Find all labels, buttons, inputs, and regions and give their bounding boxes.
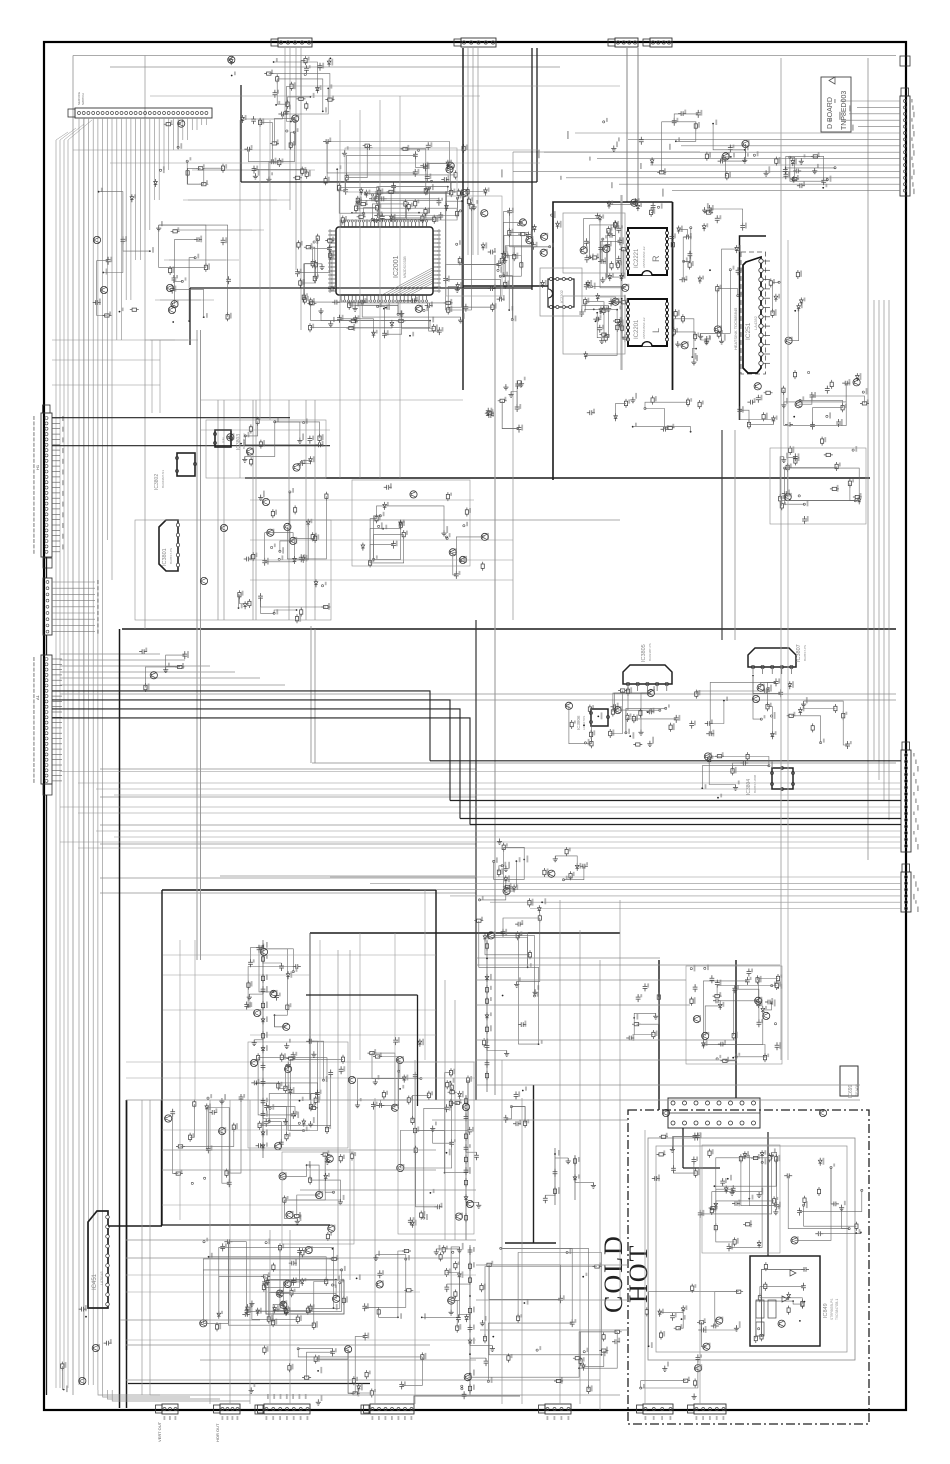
wire both3 — [126, 1344, 430, 1346]
wire botv4 — [599, 960, 601, 1410]
wire h4 — [100, 877, 476, 879]
bold pair v532 — [531, 48, 533, 290]
left conn spine3 — [46, 795, 48, 1395]
sub-box hot mid — [702, 1145, 780, 1253]
transistor Q103 — [93, 236, 100, 243]
IC2201 audio amp L — [628, 299, 667, 346]
wire fan0 — [60, 653, 160, 655]
wire h1005 power — [476, 1004, 690, 1006]
IC3801 regulator flatpack — [159, 520, 178, 571]
svg-text:IC3807: IC3807 — [796, 644, 802, 662]
connector E454 — [264, 1404, 310, 1414]
wire both18 — [480, 1329, 628, 1331]
wire fan5 — [60, 684, 285, 686]
parts group bl4 — [326, 1155, 333, 1162]
parts group hot left of ic849 — [645, 1307, 648, 1316]
wire v659 bold — [658, 960, 660, 1110]
wire toph3 — [52, 359, 160, 361]
hot bold h — [683, 1167, 720, 1169]
wire toph5 — [73, 149, 540, 151]
wire v735 — [734, 430, 736, 640]
svg-text:BA05ST-PS: BA05ST-PS — [169, 548, 173, 564]
parts group q2009 — [507, 208, 512, 216]
transistor Q3005 — [262, 498, 269, 505]
wire both4 — [200, 1359, 476, 1361]
connector H1 left — [41, 413, 52, 557]
svg-text:H1: H1 — [35, 464, 40, 470]
H1 sub box — [43, 558, 52, 568]
transistor Q551 — [250, 1059, 257, 1066]
wire toph7 — [200, 399, 463, 401]
transistor Q3802 — [200, 577, 207, 584]
connector E9 hot — [643, 1404, 673, 1414]
QFP fanout — [410, 283, 433, 295]
wire blmeshh8 — [126, 1274, 476, 1276]
bold v241 — [240, 85, 242, 182]
wire both9 — [300, 1189, 476, 1191]
wire both13 — [476, 1039, 736, 1041]
transistor Q503 — [260, 948, 267, 955]
wire topv3 — [399, 96, 401, 478]
connector A1 drops — [78, 118, 80, 1385]
wire botv18 — [249, 1100, 251, 1404]
parts group boost topleft — [160, 169, 162, 171]
parts group bl7 — [439, 1252, 442, 1261]
bold h995 — [306, 994, 418, 996]
connector E10 hot — [694, 1404, 726, 1414]
wire v513 — [512, 152, 514, 620]
wire both17 — [476, 1299, 628, 1301]
parts group boost qfp below — [383, 308, 385, 310]
wire both6 — [150, 1394, 620, 1396]
D BOARD title box — [821, 77, 851, 132]
audio section bold box — [553, 202, 673, 480]
wire v463 bold — [462, 48, 464, 390]
wire v638 — [637, 48, 639, 202]
wire blmeshh10 — [126, 1339, 476, 1341]
svg-text:L: L — [651, 328, 661, 333]
wire botv19 — [141, 1100, 143, 1395]
wire botv8 — [444, 980, 446, 1240]
audio bold right — [672, 202, 674, 390]
sub-box 3801 — [135, 520, 331, 620]
IC3802 regulator — [177, 453, 195, 476]
connector D2 top — [461, 38, 496, 47]
sub-box bl mid — [282, 1152, 354, 1244]
svg-text:IC699: IC699 — [848, 1084, 854, 1098]
wire topv1 — [359, 110, 361, 478]
parts group below SIP — [772, 416, 776, 424]
connector H2 left — [43, 578, 52, 635]
wire topdropB3 — [300, 48, 302, 330]
H1 bold out2 — [52, 445, 330, 447]
parts group left col power — [474, 919, 483, 922]
svg-text:IC3801: IC3801 — [162, 548, 168, 566]
wire inner frame left — [72, 56, 74, 1396]
wire both1 — [126, 1257, 460, 1259]
wire botv3 — [579, 930, 581, 1404]
svg-text:BA049MT-N3: BA049MT-N3 — [161, 470, 165, 488]
wire botv7 — [699, 1132, 701, 1404]
parts group P right middle — [857, 496, 861, 504]
parts group mid power small — [448, 1091, 457, 1094]
transistor Q102 — [168, 306, 175, 313]
wire topv8 — [151, 340, 153, 413]
cold-hot dash boundary box — [628, 1110, 869, 1424]
wire both16 — [476, 1264, 628, 1266]
wire toph11 — [250, 559, 513, 561]
parts group boost audio left — [602, 238, 604, 240]
wire h0 — [100, 768, 476, 770]
wire v311 — [310, 626, 312, 763]
parts group boost audio left2 — [600, 333, 609, 336]
IC3807 regulator TO220 — [748, 648, 796, 667]
wire both15 — [476, 957, 660, 959]
wire v145 — [144, 56, 146, 630]
parts group bl2 — [302, 1119, 306, 1127]
wire blmeshh0 — [163, 954, 436, 956]
parts group IC3804 left — [704, 753, 711, 760]
parts group r2671 row — [704, 211, 713, 214]
svg-text:TVCS847GB-1: TVCS847GB-1 — [835, 1299, 839, 1320]
wire rightbus2 — [883, 300, 885, 800]
IC2251 bold feed — [740, 236, 767, 420]
parts group boost mid power — [503, 1115, 508, 1123]
connector A1 row — [75, 108, 212, 118]
wire y520 — [250, 519, 620, 521]
wire blmeshh3 — [250, 1034, 436, 1036]
transistor Q801 — [662, 1109, 669, 1116]
sub-box ic2202 — [540, 268, 582, 316]
wire both14 — [476, 979, 686, 981]
wire blmeshv5 — [424, 890, 426, 1060]
sub-box audio lower — [563, 296, 625, 354]
wire rightbus0 — [873, 300, 875, 760]
parts group mid power small — [633, 1017, 635, 1019]
IC451 vertical jungle — [88, 1211, 108, 1308]
parts group IC2201 right — [675, 341, 680, 347]
IC849 power block outer — [648, 1138, 855, 1360]
A1 sub box — [43, 784, 52, 795]
wire both2 — [120, 1319, 260, 1321]
svg-text:SWITCH: SWITCH — [81, 93, 85, 105]
svg-text:A1: A1 — [35, 694, 40, 700]
wire midv6 — [314, 400, 316, 620]
wire h2 — [100, 824, 476, 826]
wire v788 — [787, 240, 789, 1060]
parts group q1 area — [171, 230, 180, 233]
connector E455 tiny — [361, 1405, 369, 1414]
wire topv6 — [239, 120, 241, 478]
svg-text:LA78045: LA78045 — [100, 1271, 104, 1285]
connector E455 — [370, 1404, 414, 1414]
wire topv2 — [379, 100, 381, 478]
svg-text:IC2001: IC2001 — [393, 255, 400, 278]
parts group hot mid — [743, 1151, 747, 1159]
wire both11 — [476, 1084, 860, 1086]
parts group bl1 — [272, 991, 274, 993]
wire blmeshv0 — [179, 940, 181, 1220]
svg-text:LA4282: LA4282 — [753, 315, 758, 330]
wire both12 — [476, 1059, 736, 1061]
wire botv5 — [619, 900, 621, 1300]
parts group top-left A2 — [286, 130, 288, 132]
wire farleft0 — [55, 140, 57, 1388]
wire h3 — [100, 843, 476, 845]
wire h5 — [100, 892, 476, 894]
bold pair v537 — [536, 48, 538, 182]
svg-text:D BOARD: D BOARD — [827, 97, 834, 129]
parts group boost bl — [299, 1100, 301, 1102]
svg-text:HOR OUT: HOR OUT — [215, 1423, 220, 1442]
wire both19 — [432, 1119, 628, 1121]
wire farleft2 — [63, 140, 65, 1388]
connector D8 right — [901, 872, 911, 912]
wire botv9 — [454, 1000, 456, 1240]
wire graybusA1 — [200, 330, 202, 960]
wire topdropA0 — [467, 48, 469, 255]
wire topdropB2 — [295, 48, 297, 270]
parts group boost hot — [757, 1240, 761, 1248]
wire toph8 — [200, 429, 330, 431]
box A top bold — [162, 889, 436, 891]
IC3805 regulator TO220 — [623, 665, 672, 684]
wire v722 bold — [721, 430, 723, 640]
svg-text:LD1117DS: LD1117DS — [582, 716, 586, 730]
wire midv3 — [255, 400, 257, 620]
parts group IC3806 left — [588, 705, 591, 714]
wire botv17 — [229, 1100, 231, 1404]
wire topdropB0 — [284, 48, 286, 150]
connector A1 left — [41, 655, 52, 784]
wire midv5 — [305, 400, 307, 620]
wire v781 — [780, 58, 782, 1060]
wire topdropB1 — [289, 48, 291, 210]
parts group IC380x mid — [325, 492, 328, 501]
wire botv6 — [644, 1130, 646, 1404]
parts chain left power — [262, 940, 264, 1158]
parts group bottom mid row — [599, 1349, 608, 1352]
transistor Q3804 — [752, 695, 759, 702]
A1 drop bends — [145, 339, 175, 341]
parts group right of SIP — [800, 298, 804, 306]
wire left bold — [119, 629, 121, 1408]
parts group IC3807 below — [760, 718, 762, 720]
wire fan4 — [60, 677, 260, 679]
wire blmeshh4 — [126, 1061, 476, 1063]
wire midv1 — [223, 400, 225, 620]
wire both0 — [126, 1239, 476, 1241]
wire fan2 — [60, 665, 210, 667]
parts group IC3805 below — [629, 735, 631, 737]
parts group Q2812 power — [693, 984, 698, 992]
svg-text:IC3802: IC3802 — [154, 474, 160, 490]
svg-text:3.3v: 3.3v — [221, 437, 225, 443]
parts group top-left B — [457, 189, 460, 198]
bold v417 power — [417, 995, 419, 1106]
parts group D4 fan — [705, 152, 708, 161]
wire farleft3 — [67, 140, 69, 1388]
A1 bold outs to D7 — [52, 691, 430, 761]
parts group IC2202 left — [520, 260, 523, 269]
parts group G3002 — [460, 560, 462, 562]
wire rightbus1 — [878, 300, 880, 780]
parts group mid bottom col — [517, 1314, 520, 1323]
parts group hot top — [657, 1153, 666, 1156]
wire band bottom — [312, 762, 896, 764]
wire blmeshh9 — [126, 1291, 420, 1293]
parts group bl5 — [402, 1075, 406, 1083]
IC3806 regulator — [591, 709, 608, 726]
svg-text:IC3806: IC3806 — [576, 715, 581, 730]
wire toph12 — [250, 579, 513, 581]
svg-text:IC2201: IC2201 — [634, 319, 640, 339]
connector HOR OUT — [220, 1404, 240, 1414]
op-amp IC2001 QFP — [336, 227, 433, 295]
transistor Q104 — [100, 286, 107, 293]
box A right — [435, 890, 437, 1100]
wire toph6 — [110, 162, 540, 164]
wire toph4 — [52, 384, 160, 386]
box B top bold — [310, 932, 620, 934]
bold h288 — [190, 287, 532, 289]
wire midv4 — [288, 400, 290, 620]
wire topv4 — [259, 120, 261, 420]
parts group boost ic451 — [301, 1248, 304, 1257]
parts group right above d7 — [811, 723, 814, 732]
wire botv12 — [349, 950, 351, 1280]
box B left — [309, 933, 311, 1100]
parts group C2251 — [486, 408, 491, 416]
transistor Q802 — [819, 1109, 826, 1116]
wire leftbus extra — [83, 118, 85, 1385]
parts group bl8 — [376, 1281, 383, 1288]
parts group right col above ic849 — [803, 1196, 806, 1205]
wire mid band bold — [122, 628, 896, 630]
parts group left of IC2001 — [302, 293, 305, 302]
parts group Q2674 top right — [790, 177, 799, 180]
box A left — [161, 890, 163, 1225]
svg-text:MN2DS0032B: MN2DS0032B — [403, 256, 407, 278]
IC2221 audio amp R — [628, 228, 667, 275]
parts group right T — [516, 860, 518, 862]
wire blmeshv1 — [194, 940, 196, 1100]
parts group mid power chains — [465, 1095, 467, 1240]
D7 bold feeds — [430, 760, 901, 762]
left conn spine — [46, 557, 48, 578]
bold v533 — [533, 1085, 535, 1243]
parts group top mid drops — [327, 59, 331, 67]
wire topdropA2 — [477, 48, 479, 255]
bold h182 — [241, 181, 537, 183]
parts group below IC2001 — [353, 305, 358, 311]
svg-text:STRF6653LPS: STRF6653LPS — [830, 1299, 834, 1320]
wire top secondary — [110, 66, 560, 68]
parts group bottom row — [363, 1333, 368, 1341]
parts group boost qfp above — [356, 199, 361, 207]
parts group mid band — [625, 732, 627, 734]
wire blmeshh1 — [163, 974, 310, 976]
wire both7 — [162, 1149, 436, 1151]
wire botv20 — [149, 1100, 151, 1395]
parts group IC2201 left — [599, 338, 604, 344]
parts group heatsink right — [661, 427, 669, 432]
wire botv15 — [289, 1230, 291, 1404]
connector E8 — [545, 1404, 571, 1414]
wire h1 — [100, 796, 476, 798]
wire blmeshh6 — [162, 1129, 310, 1131]
wire h876 — [220, 875, 476, 877]
wire botv1 — [521, 1098, 523, 1404]
gray audio bus — [620, 195, 622, 370]
wire botv10 — [414, 1060, 416, 1404]
A1 bottom bends — [98, 1390, 160, 1395]
wire rightbus3 — [888, 300, 890, 820]
parts group between amps — [735, 245, 739, 253]
parts group right of IC2001 — [488, 286, 496, 291]
transistor Q101 — [166, 284, 173, 291]
wire blmeshv3 — [359, 933, 361, 1060]
wire toph2 — [52, 339, 198, 341]
hot bold v683 — [682, 1128, 684, 1168]
parts group bottom left sparse — [61, 1362, 64, 1371]
connector D5 tiny — [900, 56, 910, 66]
wire v736 bold — [735, 960, 737, 1098]
parts group top right drops — [657, 171, 666, 174]
sub-box qfp right — [446, 196, 502, 296]
wire graybusA0 — [196, 330, 198, 960]
wire v315 — [314, 629, 316, 763]
parts group IC451 right — [267, 1315, 270, 1324]
connector D7 right — [901, 750, 911, 852]
connector E453 tiny — [255, 1405, 263, 1414]
wire v868 — [867, 58, 869, 860]
wire midv2 — [252, 400, 254, 620]
svg-text:TNP8ED003: TNP8ED003 — [841, 91, 848, 130]
parts group right T2 — [565, 847, 568, 856]
wire inner frame top — [73, 55, 896, 57]
wire fan1 — [60, 659, 185, 661]
svg-text:IC3805: IC3805 — [641, 644, 647, 662]
wire toph0 — [290, 85, 620, 87]
sub-box g3002 — [352, 480, 470, 566]
svg-text:IC3804: IC3804 — [746, 779, 752, 795]
wire topv7 — [159, 340, 161, 413]
H1 bold out1 — [52, 417, 290, 419]
svg-text:AN5544NSF-E2: AN5544NSF-E2 — [642, 317, 646, 339]
svg-text:R: R — [651, 255, 661, 262]
wire toph10 — [250, 539, 513, 541]
sub-box bl2 — [248, 1042, 348, 1148]
wire bold h286 — [463, 285, 548, 287]
wire fan3 — [60, 671, 235, 673]
parts group under A1 row — [106, 257, 111, 265]
transformer T801 — [668, 1098, 760, 1128]
wire botv14 — [269, 1230, 271, 1404]
svg-text:VERT OUT: VERT OUT — [157, 1421, 162, 1442]
wire toph1 — [150, 95, 480, 97]
wire bold y478 — [245, 477, 870, 479]
parts group mid sparse1 — [481, 533, 488, 540]
wire v476 bold — [475, 620, 477, 1100]
transistor Q3002 — [220, 524, 227, 531]
svg-text:BA05ST-PS: BA05ST-PS — [803, 645, 807, 661]
IC3803 regulator — [215, 430, 231, 447]
parts group top-left A — [241, 115, 245, 123]
wire blmeshh5 — [126, 1077, 476, 1079]
svg-text:IC451: IC451 — [92, 1273, 98, 1290]
parts group hot bottom — [662, 1366, 667, 1372]
